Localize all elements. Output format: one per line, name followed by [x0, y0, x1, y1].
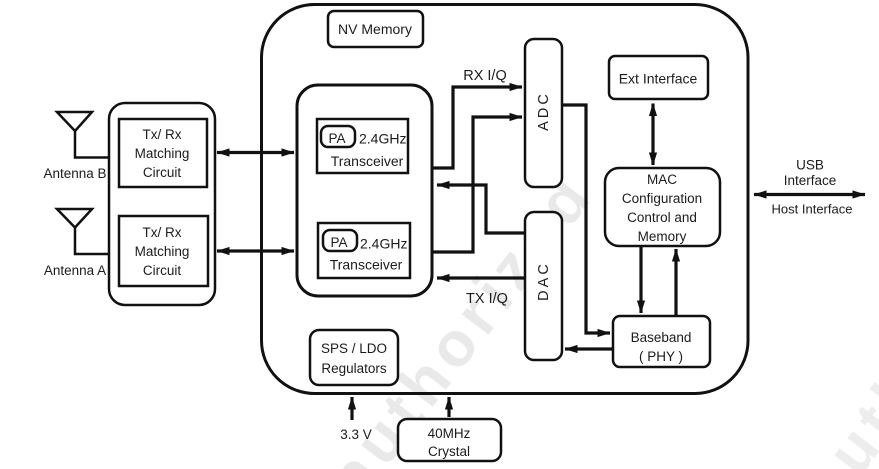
svg-text:2.4GHz: 2.4GHz — [359, 131, 406, 147]
svg-text:Configuration: Configuration — [622, 191, 702, 206]
svg-text:( PHY ): ( PHY ) — [639, 349, 683, 364]
block Tx/Rx Matching Circuit B — [119, 119, 207, 187]
svg-text:ADC: ADC — [536, 91, 552, 131]
block NV Memory — [328, 11, 423, 47]
block 40MHz Crystal — [398, 419, 501, 461]
svg-text:USB: USB — [796, 158, 824, 173]
svg-text:Crystal: Crystal — [428, 444, 470, 459]
svg-text:Transceiver: Transceiver — [331, 153, 404, 169]
svg-text:Matching: Matching — [135, 244, 190, 259]
svg-text:SPS / LDO: SPS / LDO — [321, 341, 387, 356]
svg-text:PA: PA — [330, 235, 347, 250]
transceiver module box — [297, 85, 432, 296]
svg-text:Control and: Control and — [627, 210, 697, 225]
wire USB host interface (bidirectional) — [754, 193, 865, 196]
block MAC Configuration Control and Memory — [605, 168, 720, 246]
wire RX1 transceiver1 to ADC — [433, 87, 522, 168]
wire matching A to transceiver module (bidirectional) — [217, 249, 294, 252]
block SPS/LDO Regulators — [310, 330, 398, 385]
svg-text:Transceiver: Transceiver — [330, 257, 403, 273]
wire Baseband to MAC — [674, 249, 677, 316]
svg-text:DAC: DAC — [536, 261, 552, 301]
block Tx/Rx Matching Circuit A — [119, 216, 208, 286]
block 2.4GHz Transceiver 2 — [318, 223, 410, 278]
block DAC — [525, 212, 562, 360]
wire matching B to transceiver module (bidirectional) — [217, 151, 294, 154]
svg-text:Antenna A: Antenna A — [44, 263, 106, 278]
antenna A — [57, 209, 110, 254]
wire MAC to Baseband — [639, 246, 642, 313]
svg-text:PA: PA — [328, 131, 345, 146]
wire TX1 DAC to transceiver1 — [437, 185, 525, 233]
wire 3.3V supply — [350, 397, 353, 420]
block 2.4GHz Transceiver 1 — [317, 119, 408, 173]
svg-text:NV Memory: NV Memory — [338, 21, 412, 37]
svg-text:Interface: Interface — [784, 173, 837, 188]
block Ext Interface — [609, 56, 708, 99]
block ADC — [525, 39, 562, 187]
antenna B — [57, 112, 110, 158]
svg-text:Baseband: Baseband — [631, 330, 692, 345]
svg-text:Host Interface: Host Interface — [772, 202, 853, 217]
wire ADC to Baseband — [562, 105, 610, 333]
wire TX2 DAC to transceiver2 — [437, 276, 525, 279]
svg-text:Antenna B: Antenna B — [43, 166, 106, 181]
svg-text:Regulators: Regulators — [321, 361, 387, 376]
svg-text:2.4GHz: 2.4GHz — [360, 236, 407, 252]
svg-text:Circuit: Circuit — [143, 165, 182, 180]
svg-text:Tx/ Rx: Tx/ Rx — [143, 225, 182, 240]
svg-text:3.3 V: 3.3 V — [340, 427, 372, 442]
svg-text:Ext Interface: Ext Interface — [619, 71, 698, 87]
antenna module box — [109, 103, 215, 305]
svg-text:MAC: MAC — [647, 172, 677, 187]
wire Baseband to DAC — [565, 347, 613, 350]
svg-text:RX I/Q: RX I/Q — [463, 68, 507, 84]
svg-text:40MHz: 40MHz — [428, 426, 471, 441]
wire Ext Interface to MAC (bidirectional) — [651, 104, 654, 166]
svg-text:Circuit: Circuit — [143, 263, 182, 278]
chip outline — [262, 5, 749, 394]
svg-text:Memory: Memory — [638, 229, 687, 244]
wire crystal input — [447, 397, 450, 417]
watermark — [316, 160, 879, 469]
svg-text:auth: auth — [789, 350, 879, 469]
svg-text:Tx/ Rx: Tx/ Rx — [143, 127, 182, 142]
wire RX2 transceiver2 to ADC — [433, 117, 522, 252]
svg-text:Matching: Matching — [135, 146, 190, 161]
svg-text:TX I/Q: TX I/Q — [466, 291, 508, 307]
block Baseband (PHY) — [613, 316, 710, 367]
